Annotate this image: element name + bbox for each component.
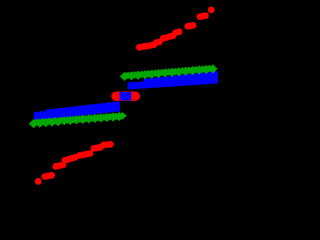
green series: right band of diamonds <box>120 72 129 81</box>
blue series: left band upper row of squares <box>34 112 41 119</box>
red series: bottom-left blob B <box>41 173 48 180</box>
red series: top-right blob 6 <box>197 13 204 20</box>
red series: top-right blob 1 <box>136 44 143 51</box>
red series: bottom-left blob G <box>100 142 107 149</box>
blue series: right band upper row of squares <box>144 79 151 86</box>
red series: bottom-left blob D <box>61 157 68 164</box>
red series: top-right blob 5 <box>184 23 191 30</box>
red series: bottom-left blob C <box>52 163 59 170</box>
red series: bottom-left blob F <box>91 145 98 152</box>
green series: left band of diamonds <box>29 119 38 128</box>
red series: top-right blob 3 <box>160 35 167 42</box>
scatter plot on black background <box>0 0 218 213</box>
blue series: middle plateau squares <box>120 92 132 101</box>
red series: middle plateau lozenge <box>116 91 135 100</box>
red series: bottom-left blob A single point <box>35 178 42 185</box>
red series: top-right blob 7 single point <box>208 6 215 13</box>
red series: top-right blob 4 <box>172 29 179 36</box>
red series: bottom-left blob E <box>76 152 83 159</box>
blue series: right band lower row of squares <box>128 82 135 89</box>
blue series: left band lower row of squares <box>34 115 41 122</box>
red series: top-right blob 2 <box>153 39 160 46</box>
